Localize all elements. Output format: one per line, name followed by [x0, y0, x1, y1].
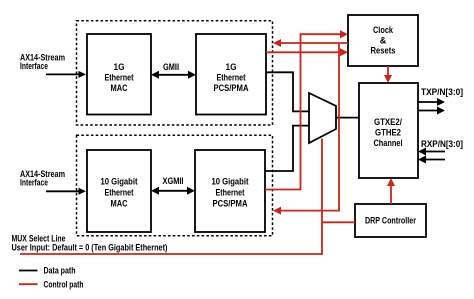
block 1G Ethernet PCS/PMA: [196, 34, 266, 115]
block GTXE2/GTHE2 Channel: [359, 83, 418, 178]
wire TXP arrow 2: [418, 107, 445, 115]
block Clock & Resets: [348, 15, 418, 66]
wire mux output to GTXE2: [336, 117, 359, 119]
dashed box 1G subsystem: [77, 21, 273, 125]
wire TXP arrow 1: [418, 98, 445, 106]
wire GMII double arrow: [151, 71, 196, 79]
label AX14-Stream Interface (top): [20, 52, 65, 71]
wire red control branch to 10G subsystem: [273, 43, 339, 215]
wire red control 1G PCS/PMA to Clock: [266, 48, 348, 56]
svg-text:10 Gigabit: 10 Gigabit: [212, 177, 249, 187]
svg-text:GTXE2/: GTXE2/: [374, 117, 402, 127]
block 1G Ethernet MAC: [87, 34, 151, 115]
svg-text:Data path: Data path: [44, 266, 76, 276]
label AX14-Stream Interface (bottom): [20, 169, 65, 188]
wire XGMII double arrow: [151, 187, 195, 195]
svg-text:TXP/N[3:0]: TXP/N[3:0]: [421, 87, 463, 97]
svg-text:PCS/PMA: PCS/PMA: [213, 199, 248, 209]
svg-text:Ethernet: Ethernet: [216, 188, 245, 198]
svg-text:XGMII: XGMII: [163, 176, 184, 186]
svg-text:RXP/N[3:0]: RXP/N[3:0]: [421, 139, 463, 149]
svg-text:&: &: [380, 36, 387, 46]
svg-text:Resets: Resets: [371, 46, 396, 56]
mux: [309, 93, 336, 143]
svg-text:1G: 1G: [114, 62, 125, 72]
svg-text:Ethernet: Ethernet: [105, 188, 134, 198]
svg-text:Ethernet: Ethernet: [105, 73, 134, 83]
wire RXP arrow 1: [418, 148, 445, 156]
block 10 Gigabit Ethernet PCS/PMA: [195, 150, 265, 232]
svg-text:PCS/PMA: PCS/PMA: [214, 83, 249, 93]
wire 10G PCS/PMA data to mux: [265, 126, 309, 171]
block 10 Gigabit Ethernet MAC: [87, 150, 151, 232]
svg-text:Control path: Control path: [44, 280, 84, 290]
svg-text:Interface: Interface: [20, 178, 48, 188]
wire red Clock to GTXE2: [384, 66, 392, 83]
wire RXP arrow 2: [418, 156, 445, 164]
wire AXI4-Stream arrow into 10G MAC: [46, 188, 86, 195]
dashed box 10G subsystem: [77, 135, 273, 236]
wire red DRP to GTXE2: [387, 178, 395, 204]
svg-text:User Input: Default = 0 (Ten G: User Input: Default = 0 (Ten Gigabit Eth…: [12, 243, 168, 253]
wire 1G PCS/PMA data to mux: [266, 72, 309, 111]
svg-text:10 Gigabit: 10 Gigabit: [101, 177, 138, 187]
svg-text:DRP Controller: DRP Controller: [365, 216, 416, 226]
wire red select to DRP Controller: [322, 221, 355, 223]
block DRP Controller: [355, 204, 426, 237]
svg-text:Clock: Clock: [373, 25, 394, 35]
wire AXI4-Stream arrow into 1G MAC: [46, 71, 86, 78]
svg-text:GTHE2: GTHE2: [375, 128, 401, 138]
svg-text:MAC: MAC: [111, 83, 128, 93]
svg-text:Channel: Channel: [374, 138, 403, 148]
svg-text:MAC: MAC: [111, 199, 128, 209]
legend control path: [19, 280, 84, 290]
svg-text:1G: 1G: [226, 62, 237, 72]
wire red control 10G PCS/PMA to Clock: [265, 30, 348, 189]
legend data path: [19, 266, 76, 276]
wire red MUX select line: [20, 139, 322, 255]
label MUX Select Line / User Input: [12, 234, 168, 253]
wire red control Clock to 1G subsystem: [273, 39, 348, 47]
svg-text:Ethernet: Ethernet: [217, 73, 246, 83]
svg-text:Interface: Interface: [20, 61, 48, 71]
svg-text:GMII: GMII: [163, 62, 179, 72]
